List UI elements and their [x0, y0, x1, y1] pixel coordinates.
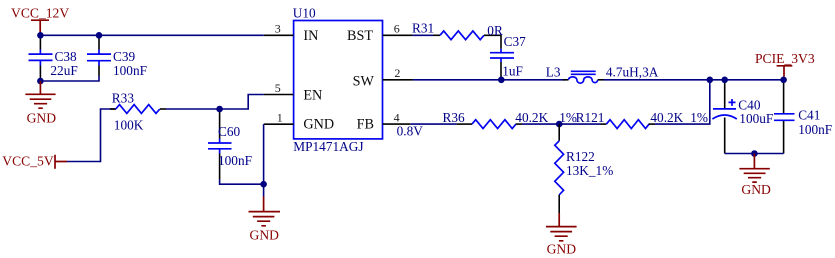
svg-text:C41: C41 — [798, 108, 820, 123]
svg-text:1%: 1% — [690, 110, 708, 125]
svg-text:EN: EN — [303, 88, 322, 104]
ground under C38 — [25, 81, 56, 125]
ground under R122 — [546, 213, 577, 257]
node junction feedback/output — [707, 77, 714, 84]
inductor L3 — [546, 65, 659, 84]
capacitor C40 polarized — [712, 83, 773, 154]
node junction pin1/C60/GND — [260, 181, 267, 188]
svg-text:VCC_12V: VCC_12V — [11, 6, 69, 21]
resistor R121 — [576, 110, 708, 129]
pin 3 stub — [264, 34, 294, 36]
pin 4 stub — [383, 123, 411, 125]
svg-text:SW: SW — [353, 74, 375, 90]
resistor R36 — [443, 110, 577, 129]
svg-text:C38: C38 — [55, 49, 78, 64]
svg-text:GND: GND — [547, 242, 577, 257]
wire L3 to output node — [604, 79, 784, 81]
node junction VCC_12V / C38 — [37, 32, 44, 39]
node junction C40 top — [721, 77, 728, 84]
wire C37 bottom to SW rail — [500, 77, 502, 80]
capacitor C60 — [208, 112, 252, 179]
wire R36 to FB node — [522, 123, 601, 125]
pin 2 stub — [383, 79, 413, 81]
capacitor C37 — [490, 34, 526, 79]
svg-text:C60: C60 — [218, 124, 241, 139]
svg-text:R121: R121 — [576, 110, 605, 125]
pin 5 stub — [264, 94, 294, 96]
svg-text:BST: BST — [347, 28, 373, 44]
svg-text:100nF: 100nF — [218, 153, 252, 168]
resistor R31 — [412, 21, 503, 49]
resistor R33 — [110, 91, 166, 133]
svg-text:C39: C39 — [113, 49, 136, 64]
svg-text:GND: GND — [250, 227, 280, 242]
svg-text:R122: R122 — [566, 149, 595, 164]
ground under C60 — [249, 197, 281, 243]
resistor R122 — [555, 124, 613, 213]
svg-text:R33: R33 — [112, 91, 135, 106]
svg-text:R31: R31 — [412, 21, 434, 36]
node junction PCIE_3V3 — [780, 77, 787, 84]
svg-text:2: 2 — [394, 66, 400, 80]
wire C60 bottom to pin1 net — [220, 179, 264, 184]
svg-text:C37: C37 — [504, 34, 527, 49]
power port VCC_12V — [11, 6, 69, 33]
svg-text:5: 5 — [275, 81, 281, 95]
svg-text:GND: GND — [741, 182, 771, 197]
svg-text:100K: 100K — [114, 118, 144, 133]
wire pin 1 down to ground node — [263, 124, 265, 196]
svg-text:1uF: 1uF — [502, 64, 523, 79]
capacitor C41 — [774, 83, 832, 154]
svg-text:C40: C40 — [738, 97, 761, 112]
svg-text:U10: U10 — [293, 6, 316, 21]
svg-text:MP1471AGJ: MP1471AGJ — [293, 139, 363, 154]
node junction C60 tap — [216, 106, 223, 113]
power port VCC_5V — [2, 154, 67, 169]
wire R121 to output node (feedback) — [655, 80, 710, 124]
svg-text:100nF: 100nF — [798, 122, 832, 137]
wire SW rail pin2 to L3 — [413, 79, 566, 81]
node junction C39 top — [96, 32, 103, 39]
wire R33 to EN pin 5 — [166, 95, 264, 110]
svg-text:GND: GND — [303, 117, 334, 133]
svg-text:40.2K: 40.2K — [515, 110, 548, 125]
svg-text:40.2K: 40.2K — [650, 110, 683, 125]
svg-text:3: 3 — [275, 22, 281, 36]
svg-text:IN: IN — [303, 28, 318, 44]
wire top rail from VCC_12V to pin 3 — [40, 34, 263, 36]
power port PCIE_3V3 — [755, 51, 815, 77]
node junction C37/SW — [498, 77, 505, 84]
svg-text:22uF: 22uF — [50, 63, 77, 78]
svg-text:0R: 0R — [487, 23, 503, 38]
wire pin 4 to R36 — [410, 123, 456, 125]
wire output bottom rail — [725, 153, 784, 155]
svg-text:4.7uH,3A: 4.7uH,3A — [606, 65, 659, 80]
svg-text:PCIE_3V3: PCIE_3V3 — [755, 51, 815, 66]
svg-text:L3: L3 — [546, 65, 561, 80]
wire VCC_5V to R33 — [67, 109, 116, 162]
capacitor C39 — [87, 39, 147, 79]
svg-text:100nF: 100nF — [113, 63, 147, 78]
ground output — [739, 154, 771, 197]
svg-text:100uF: 100uF — [739, 111, 773, 126]
wire pin 6 to R31 — [413, 34, 433, 36]
op-amp U10 body rectangle — [294, 21, 383, 139]
svg-text:6: 6 — [394, 22, 400, 36]
pin 6 stub — [383, 34, 413, 36]
svg-text:FB: FB — [357, 117, 374, 133]
node junction FB divider — [556, 121, 563, 128]
node junction output GND — [751, 150, 758, 157]
capacitor C38 — [29, 39, 78, 79]
svg-text:GND: GND — [27, 110, 57, 125]
svg-text:R36: R36 — [443, 110, 466, 125]
pin 1 stub — [264, 123, 294, 125]
svg-text:13K_1%: 13K_1% — [566, 163, 613, 178]
wire C39 bottom to C38 bottom — [40, 76, 99, 81]
svg-text:1: 1 — [277, 111, 283, 125]
svg-text:0.8V: 0.8V — [397, 123, 424, 138]
svg-text:VCC_5V: VCC_5V — [2, 154, 54, 169]
node junction C38 bottom / GND — [37, 78, 44, 85]
